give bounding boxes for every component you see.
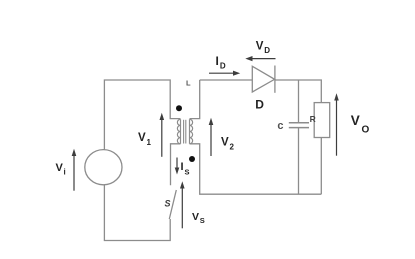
wire primary bottom bbox=[104, 185, 170, 241]
arrow V2 bbox=[210, 124, 212, 156]
label Id bbox=[216, 54, 226, 71]
svg-text:V: V bbox=[56, 162, 64, 174]
svg-text:V: V bbox=[221, 137, 229, 149]
arrow Vd (left) bbox=[253, 58, 276, 60]
svg-text:2: 2 bbox=[230, 142, 235, 151]
wire capacitor branch top bbox=[298, 80, 300, 123]
svg-text:D: D bbox=[264, 46, 270, 55]
svg-text:i: i bbox=[64, 168, 66, 177]
wire resistor bottom bbox=[320, 138, 322, 195]
svg-text:I: I bbox=[181, 161, 184, 173]
svg-text:S: S bbox=[200, 216, 205, 225]
arrow Vi bbox=[73, 155, 75, 191]
label Vi bbox=[56, 162, 66, 177]
svg-text:V: V bbox=[351, 113, 360, 128]
svg-text:D: D bbox=[220, 62, 226, 71]
wire capacitor branch bottom bbox=[298, 128, 300, 194]
wire secondary top lead bbox=[190, 80, 200, 119]
arrow Is (down) bbox=[176, 158, 178, 169]
svg-text:D: D bbox=[255, 98, 264, 112]
arrows bbox=[72, 56, 339, 228]
diode D bbox=[252, 66, 275, 93]
wire secondary top rail to diode bbox=[200, 79, 253, 81]
svg-text:O: O bbox=[362, 124, 370, 135]
voltage source Vi circle bbox=[85, 150, 122, 185]
svg-text:S: S bbox=[165, 199, 171, 209]
svg-text:S: S bbox=[185, 167, 190, 176]
switch S blade bbox=[169, 190, 176, 219]
label V1 bbox=[138, 132, 152, 147]
transformer core bbox=[184, 120, 186, 144]
polarity dot secondary bbox=[189, 156, 195, 162]
label Vd bbox=[256, 40, 270, 55]
label Vs bbox=[192, 211, 205, 225]
wire diode to resistor branch bbox=[275, 80, 321, 103]
svg-text:R: R bbox=[310, 114, 316, 124]
svg-text:V: V bbox=[138, 132, 146, 144]
wire secondary bottom rail bbox=[190, 144, 322, 194]
resistor R box bbox=[314, 103, 330, 138]
svg-text:c: c bbox=[277, 120, 283, 132]
svg-text:I: I bbox=[216, 54, 219, 68]
capacitor C plates bbox=[289, 123, 309, 128]
arrow Vs bbox=[181, 188, 183, 229]
label V2 bbox=[221, 137, 235, 152]
arrow V1 bbox=[161, 119, 163, 157]
arrow Id (right) bbox=[209, 72, 234, 74]
svg-text:V: V bbox=[256, 40, 264, 52]
transformer primary winding bbox=[177, 119, 180, 144]
arrow Vo bbox=[336, 100, 338, 156]
transformer secondary winding bbox=[190, 119, 193, 144]
wire primary top rail bbox=[104, 80, 180, 150]
svg-text:V: V bbox=[192, 211, 199, 223]
svg-text:L: L bbox=[186, 78, 191, 87]
svg-text:1: 1 bbox=[147, 138, 152, 147]
wire primary winding bottom to switch bbox=[171, 144, 181, 186]
label Is bbox=[181, 161, 190, 176]
polarity dot primary bbox=[176, 105, 182, 111]
label Vo bbox=[351, 113, 370, 135]
